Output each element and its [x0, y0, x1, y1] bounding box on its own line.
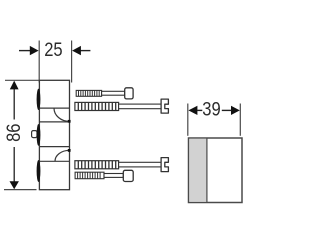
- dimension 39: left arrowhead: [188, 106, 197, 115]
- screw D (short, bottom): thread: [75, 172, 104, 179]
- left body: black oval O1: [37, 89, 41, 110]
- left body: lower door-swing arc: [55, 150, 69, 161]
- left body: upper door-swing arc: [54, 108, 69, 121]
- dimension 25: left leader tail: [19, 50, 30, 52]
- dimension 39: right tail: [222, 109, 232, 111]
- dimension 39: right arrowhead: [231, 106, 240, 115]
- screw C: shaft: [119, 162, 162, 167]
- right part: strip separator line: [206, 139, 208, 203]
- dimension 86: down arrowhead: [10, 181, 19, 189]
- dimension 86: up arrowhead: [10, 81, 19, 90]
- dimension 25: right leader tail: [81, 50, 91, 52]
- screw D: shaft: [104, 174, 123, 178]
- left body: inner line L3: [39, 146, 69, 148]
- svg-text:39: 39: [202, 98, 220, 120]
- right part: outline: [189, 138, 243, 203]
- dimension 25: right extension line: [71, 41, 73, 83]
- dimension 86: line lower segment: [13, 147, 15, 188]
- screw A (short, top): thread: [76, 90, 101, 96]
- screw C (long, lower): thread: [75, 161, 119, 169]
- dimension 25: left arrowhead: [30, 46, 39, 55]
- dimension 39: left extension line: [187, 104, 189, 136]
- screw A: head: [125, 88, 133, 99]
- dimension 86: top extension line: [5, 79, 39, 81]
- left body: outline: [39, 80, 69, 189]
- screw A: shaft: [102, 91, 125, 95]
- left body: upper arc junction blob: [68, 120, 71, 123]
- screw B: shaft: [119, 104, 162, 109]
- dimension 25: right arrowhead: [72, 46, 81, 55]
- right part: gray strip: [189, 139, 206, 202]
- left body: side tab: [32, 131, 37, 138]
- left body: lower arc junction blob: [68, 149, 71, 152]
- left body: black oval O2: [37, 124, 41, 146]
- screw B (long, upper): thread: [75, 102, 119, 110]
- left body: black oval O3: [37, 160, 41, 182]
- svg-text:86: 86: [3, 123, 24, 141]
- screw B: slotted head: [161, 99, 168, 113]
- left body: inner line L1: [39, 107, 69, 109]
- dimension 25: left extension line: [38, 41, 40, 83]
- left body: inner line L2: [39, 121, 69, 123]
- svg-text:25: 25: [44, 39, 62, 61]
- screw C: slotted head: [161, 158, 168, 172]
- screw D: head: [123, 170, 133, 181]
- dimension 39: left tail: [197, 109, 202, 111]
- left body: inner line L4: [39, 160, 69, 162]
- dimension 39: right extension line: [239, 104, 241, 136]
- dimension 86: line upper segment: [13, 82, 15, 120]
- dimension 86: bottom extension line: [4, 189, 37, 191]
